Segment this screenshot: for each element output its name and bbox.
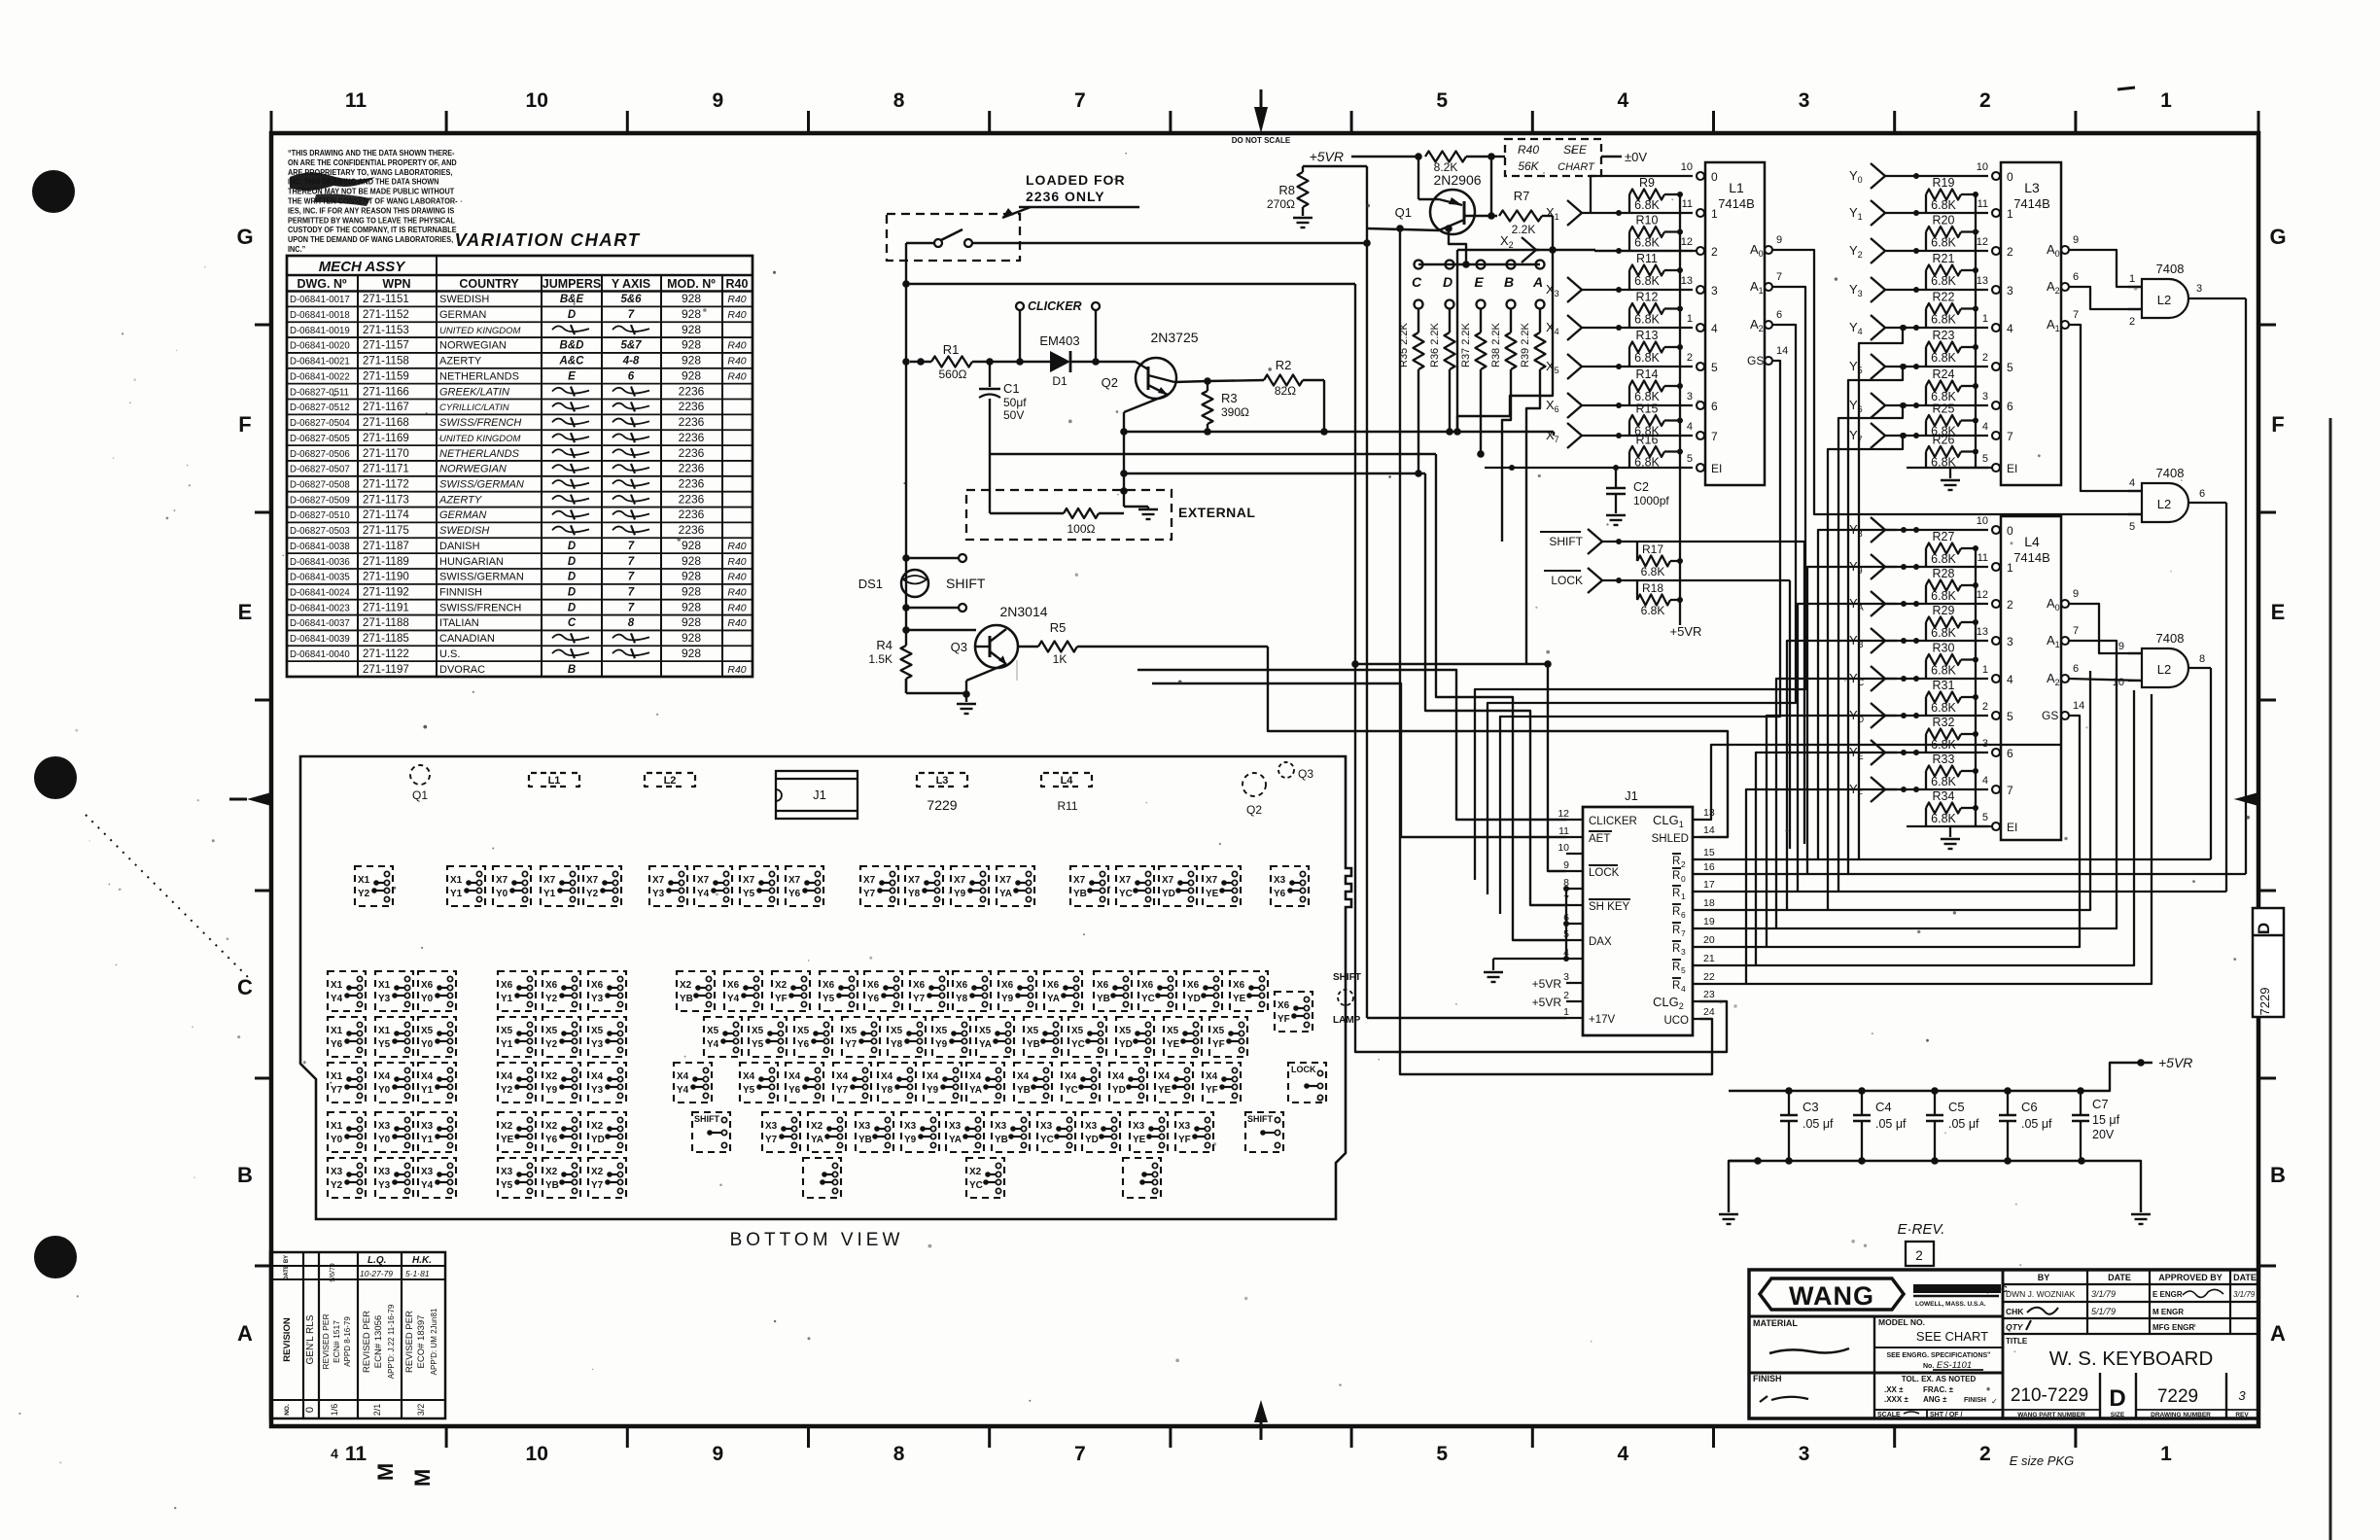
svg-text:14: 14 — [2073, 700, 2084, 712]
svg-text:X6: X6 — [913, 980, 925, 991]
svg-text:X3: X3 — [765, 1121, 777, 1132]
svg-text:1: 1 — [2129, 273, 2135, 285]
svg-text:0: 0 — [1681, 874, 1686, 884]
ground external — [1120, 487, 1158, 519]
svg-text:R3: R3 — [1221, 391, 1238, 405]
key switch X7/Y9 — [951, 866, 989, 906]
punch hole bottom-left — [34, 1236, 77, 1278]
key switch X6/YC — [1138, 971, 1176, 1011]
svg-text:10: 10 — [1977, 161, 1988, 173]
svg-text:271-1190: 271-1190 — [363, 572, 409, 583]
key switch X4/Y5 — [740, 1063, 778, 1102]
zone letters right edge — [2234, 225, 2287, 1346]
key switch spare b — [1123, 1158, 1161, 1198]
wire Q2 emitter to bus — [1120, 385, 1168, 477]
svg-text:X3: X3 — [421, 1167, 433, 1177]
pin 5 J1 — [1563, 928, 1583, 940]
key switch X4/Y0 — [375, 1063, 413, 1102]
svg-text:7: 7 — [628, 309, 635, 321]
wire gate1 output — [2245, 298, 2247, 874]
svg-text:D-06827-0511: D-06827-0511 — [290, 387, 349, 398]
pin 12 J1 — [1557, 808, 1583, 820]
svg-text:TITLE: TITLE — [2006, 1337, 2028, 1346]
svg-text:2N3725: 2N3725 — [1150, 330, 1198, 345]
pin 14 J1 — [1693, 824, 1715, 837]
svg-text:7: 7 — [2073, 625, 2079, 637]
svg-text:Y7: Y7 — [331, 1085, 342, 1096]
key switch X3/Y6 — [1271, 866, 1309, 906]
svg-text:2: 2 — [1563, 990, 1569, 1001]
svg-text:X2: X2 — [775, 980, 787, 991]
svg-text:H.K.: H.K. — [412, 1255, 432, 1266]
wire L1 A1 nested — [1475, 287, 1805, 880]
svg-text:D: D — [1443, 274, 1452, 290]
svg-text:D-06841-0018: D-06841-0018 — [290, 310, 350, 321]
svg-text:1: 1 — [1563, 1006, 1569, 1018]
svg-text:YD: YD — [1085, 1135, 1099, 1145]
svg-text:3/1/79: 3/1/79 — [2091, 1289, 2116, 1299]
svg-text:1000pf: 1000pf — [1633, 494, 1669, 507]
key switch X4/Y2 — [498, 1063, 536, 1102]
svg-text:UNITED KINGDOM: UNITED KINGDOM — [439, 326, 520, 336]
svg-text:X5: X5 — [845, 1026, 857, 1036]
svg-text:D: D — [2255, 923, 2273, 934]
svg-text:MATERIAL: MATERIAL — [1753, 1318, 1798, 1328]
wire X7 drive line — [1124, 428, 1554, 436]
svg-text:6: 6 — [628, 370, 635, 382]
svg-text:R10: R10 — [1636, 214, 1659, 227]
svg-text:928: 928 — [682, 585, 701, 599]
svg-text:X3: X3 — [1133, 1121, 1144, 1132]
svg-text:GERMAN: GERMAN — [439, 509, 486, 521]
svg-text:7: 7 — [1711, 430, 1718, 443]
svg-text:MODEL NO.: MODEL NO. — [1878, 1317, 1925, 1327]
svg-text:X5: X5 — [935, 1026, 947, 1036]
svg-text:Y0: Y0 — [378, 1085, 390, 1096]
svg-text:X7: X7 — [1119, 875, 1131, 886]
svg-text:YE: YE — [1133, 1135, 1145, 1145]
svg-text:6.8K: 6.8K — [1931, 552, 1956, 566]
PCB outline bottom view — [300, 756, 1351, 1219]
resistor R34 6.8K — [1926, 789, 1978, 826]
svg-text:3/2: 3/2 — [416, 1404, 426, 1417]
svg-text:2236: 2236 — [679, 507, 705, 521]
svg-text:Y7: Y7 — [591, 1180, 603, 1191]
svg-text:L2: L2 — [664, 775, 677, 787]
svg-text:INC.”: INC.” — [288, 245, 305, 255]
key switch X3/Y3 — [375, 1158, 413, 1198]
resistor R5 — [1017, 620, 1268, 666]
transistor Q1 PCB — [410, 765, 430, 802]
svg-text:3: 3 — [2007, 635, 2013, 648]
svg-text:X3: X3 — [904, 1121, 916, 1132]
svg-text:X5: X5 — [797, 1026, 809, 1036]
wire R36 tail — [1446, 369, 1453, 436]
svg-text:14: 14 — [1776, 345, 1788, 357]
svg-text:Y3: Y3 — [378, 994, 390, 1004]
svg-text:M ENGR: M ENGR — [2152, 1308, 2184, 1316]
svg-text:YC: YC — [1119, 889, 1133, 899]
svg-text:928: 928 — [682, 338, 701, 352]
key switch X2/Y7 — [588, 1158, 626, 1198]
svg-text:“THIS DRAWING AND THE DATA SHO: “THIS DRAWING AND THE DATA SHOWN THERE- — [288, 149, 455, 158]
IC footprint L4 PCB — [1041, 773, 1092, 787]
svg-text:4: 4 — [1982, 775, 1988, 787]
part number cell — [2003, 1373, 2258, 1418]
svg-text:7414B: 7414B — [2013, 550, 2050, 565]
svg-text:6.8K: 6.8K — [1931, 664, 1956, 678]
svg-text:W. S. KEYBOARD: W. S. KEYBOARD — [2049, 1347, 2214, 1370]
pin 13 J1 — [1693, 807, 1715, 820]
pin 16 J1 — [1693, 861, 1715, 874]
wire pin21 row — [1699, 690, 2134, 965]
svg-text:X6: X6 — [956, 980, 967, 991]
svg-text:X1: X1 — [331, 1121, 342, 1132]
svg-text:16: 16 — [1703, 861, 1715, 873]
wire L1 A0 to gate2 — [1772, 250, 2142, 514]
IC footprint L2 PCB — [645, 773, 695, 787]
svg-text:X3: X3 — [1040, 1121, 1052, 1132]
transistor Q2 PCB — [1242, 773, 1266, 817]
svg-text:9: 9 — [713, 1443, 724, 1465]
svg-text:.05 μf: .05 μf — [1948, 1117, 1979, 1131]
svg-text:5: 5 — [1687, 453, 1693, 465]
key switch X3/YA — [946, 1112, 984, 1152]
variation chart table — [287, 256, 752, 677]
svg-text:CLICKER: CLICKER — [1589, 816, 1637, 827]
svg-text:Y2: Y2 — [331, 1180, 342, 1191]
svg-text:X3: X3 — [1085, 1121, 1097, 1132]
svg-text:D-06841-0019: D-06841-0019 — [290, 326, 350, 336]
svg-text:2/1: 2/1 — [372, 1404, 382, 1417]
wire L3 A1 to gate2 — [2069, 325, 2142, 491]
input YA — [1849, 591, 1988, 616]
svg-text:100Ω: 100Ω — [1067, 522, 1096, 536]
svg-text:MOD. Nº: MOD. Nº — [667, 277, 716, 291]
pin 2 L1 — [1687, 352, 1718, 374]
resistor R19 6.8K — [1926, 176, 1978, 213]
key switch X6/Y3 — [588, 971, 626, 1011]
svg-text:D: D — [568, 602, 576, 613]
svg-text:R40: R40 — [1518, 143, 1539, 157]
svg-text:928: 928 — [682, 570, 701, 583]
key switch X6/Y4 — [724, 971, 762, 1011]
svg-text:X4: X4 — [591, 1071, 603, 1082]
svg-text:D-06841-0021: D-06841-0021 — [290, 356, 350, 367]
svg-text:D: D — [2109, 1385, 2125, 1412]
svg-text:LOCK: LOCK — [1291, 1065, 1316, 1074]
svg-text:11: 11 — [1977, 198, 1988, 210]
svg-text:M: M — [373, 1463, 398, 1481]
wire pin16 row — [1699, 873, 2246, 875]
svg-text:AZERTY: AZERTY — [439, 356, 482, 367]
svg-text:Y1: Y1 — [501, 994, 512, 1004]
svg-text:THE WRITTEN CONSENT OF WANG LA: THE WRITTEN CONSENT OF WANG LABORATOR- — [288, 196, 458, 206]
svg-text:3: 3 — [1711, 284, 1718, 297]
input Y6 — [1849, 393, 1988, 418]
svg-text:X2: X2 — [969, 1167, 981, 1177]
svg-text:Y0: Y0 — [421, 994, 433, 1004]
svg-text:ECN# 13056: ECN# 13056 — [373, 1315, 384, 1368]
svg-text:X3: X3 — [378, 1121, 390, 1132]
svg-text:DATE: DATE — [284, 1265, 290, 1280]
svg-text:R23: R23 — [1933, 329, 1955, 342]
svg-text:1: 1 — [1711, 207, 1718, 221]
svg-text:YC: YC — [1141, 994, 1155, 1004]
zone tick marks top — [271, 111, 2258, 133]
resistor R25 6.8K — [1926, 402, 1978, 438]
svg-text:50μf: 50μf — [1003, 396, 1027, 409]
key switch X4/Y8 — [878, 1063, 916, 1102]
svg-text:R40: R40 — [727, 294, 746, 305]
svg-text:271-1197: 271-1197 — [363, 664, 409, 676]
svg-text:X5: X5 — [1071, 1026, 1083, 1036]
wire left bus vertical — [902, 243, 934, 693]
svg-text:271-1175: 271-1175 — [363, 525, 409, 537]
svg-text:271-1171: 271-1171 — [363, 464, 409, 475]
svg-text:12: 12 — [1977, 589, 1988, 601]
svg-text:SIZE: SIZE — [2111, 1412, 2125, 1418]
svg-text:928: 928 — [682, 539, 701, 552]
svg-text:2: 2 — [2129, 316, 2135, 328]
svg-text:EXTERNAL: EXTERNAL — [1178, 505, 1255, 520]
key switch X4/Y1 — [418, 1063, 456, 1102]
svg-text:SHIFT: SHIFT — [1549, 535, 1583, 548]
svg-text:2236: 2236 — [679, 384, 705, 398]
resistor R10 6.8K — [1629, 214, 1683, 252]
svg-text:Y1: Y1 — [421, 1135, 433, 1145]
pin 2 L3 — [1982, 352, 2013, 374]
resistor R20 6.8K — [1926, 214, 1978, 252]
svg-text:4: 4 — [1687, 421, 1693, 433]
svg-text:D-06841-0039: D-06841-0039 — [290, 634, 350, 645]
wire pin17 row — [1699, 891, 2226, 892]
svg-text:Y0: Y0 — [331, 1135, 342, 1145]
resistor R33 6.8K — [1926, 752, 1978, 789]
svg-text:B: B — [1504, 274, 1514, 290]
key switch X2/Y6 — [542, 1112, 580, 1152]
svg-text:+5VR: +5VR — [2158, 1055, 2192, 1070]
svg-text:BY: BY — [2038, 1273, 2050, 1282]
svg-text:E: E — [1474, 274, 1484, 290]
svg-text:Y2: Y2 — [586, 889, 598, 899]
svg-text:M: M — [410, 1469, 435, 1487]
key switch X7/Y5 — [740, 866, 778, 906]
svg-text:6.8K: 6.8K — [1931, 198, 1956, 212]
wire pin15 row — [1699, 858, 2211, 860]
svg-text:YB: YB — [680, 994, 693, 1004]
svg-text:8: 8 — [893, 89, 905, 112]
finish cell — [1753, 1374, 1808, 1402]
svg-text:4: 4 — [2007, 673, 2013, 686]
resistor R40 dashed box SEE CHART — [1491, 139, 1647, 176]
svg-text:X2: X2 — [811, 1121, 822, 1132]
lamp contact upper — [906, 554, 966, 562]
key switch X3/YF — [1175, 1112, 1213, 1152]
enable input EI row — [1907, 825, 1988, 827]
svg-text:X7: X7 — [908, 875, 920, 886]
svg-text:X6: X6 — [1097, 980, 1108, 991]
key switch X6/Y9 — [998, 971, 1036, 1011]
svg-text:12: 12 — [1681, 236, 1693, 248]
svg-text:3: 3 — [2238, 1388, 2246, 1403]
pin 12 L1 — [1681, 236, 1718, 259]
svg-text:X3: X3 — [331, 1167, 342, 1177]
wire harness CLICKER chain — [1137, 670, 1566, 820]
svg-text:YE: YE — [1206, 889, 1218, 899]
pin 6 J1 — [1563, 912, 1583, 924]
wire CLG2 loop from bus — [906, 283, 1355, 285]
pin 20 J1 — [1693, 934, 1715, 947]
svg-text:X7: X7 — [743, 875, 754, 886]
svg-text:EI: EI — [2007, 821, 2017, 834]
pin 3 J1 — [1563, 971, 1583, 983]
svg-text:Y6: Y6 — [545, 1135, 557, 1145]
svg-text:R5: R5 — [1050, 620, 1067, 635]
svg-text:2: 2 — [2007, 598, 2013, 612]
key switch SHIFT left — [692, 1112, 730, 1152]
svg-text:Q3: Q3 — [951, 640, 967, 654]
svg-text:8: 8 — [893, 1443, 905, 1465]
key switch X2/YB — [542, 1158, 580, 1198]
svg-text:271-1167: 271-1167 — [363, 402, 409, 413]
svg-text:R12: R12 — [1636, 291, 1659, 304]
svg-text:X7: X7 — [543, 875, 555, 886]
svg-text:4: 4 — [1618, 89, 1629, 112]
key switch X5/Y5 — [749, 1017, 787, 1057]
svg-text:C5: C5 — [1948, 1100, 1965, 1114]
svg-text:YF: YF — [775, 994, 787, 1004]
svg-text:2: 2 — [1915, 1248, 1923, 1263]
svg-text:CHART: CHART — [1557, 161, 1595, 173]
svg-text:L3: L3 — [936, 775, 949, 787]
resistor R35 2.2K — [1398, 309, 1424, 370]
svg-text:MFG ENGR: MFG ENGR — [2152, 1323, 2194, 1332]
svg-text:3: 3 — [2196, 283, 2202, 295]
svg-text:D-06827-0507: D-06827-0507 — [290, 464, 350, 474]
svg-text:SWISS/FRENCH: SWISS/FRENCH — [439, 417, 521, 429]
svg-text:4: 4 — [2007, 322, 2013, 335]
label LOADED FOR 2236 ONLY — [1002, 172, 1139, 218]
svg-text:D-06841-0037: D-06841-0037 — [290, 618, 350, 629]
output A0 L1 — [1750, 234, 1782, 259]
key switch X3/YC — [1037, 1112, 1075, 1152]
key switch X2/YD — [588, 1112, 626, 1152]
svg-text:X2: X2 — [545, 1167, 557, 1177]
input Y4 — [1849, 315, 1988, 340]
svg-text:X6: X6 — [421, 980, 433, 991]
svg-text:UPON THE DEMAND OF WANG LABORA: UPON THE DEMAND OF WANG LABORATORIES, — [288, 235, 453, 245]
svg-text:7: 7 — [2007, 784, 2013, 797]
svg-text:REVISED PER: REVISED PER — [404, 1311, 415, 1373]
svg-text:D-06827-0510: D-06827-0510 — [290, 510, 350, 521]
external dashed box — [966, 490, 1255, 540]
svg-text:Y9: Y9 — [545, 1085, 557, 1096]
svg-text:B&D: B&D — [560, 340, 584, 352]
key switch X3/Y0 — [375, 1112, 413, 1152]
svg-text:X6: X6 — [867, 980, 879, 991]
svg-text:X6: X6 — [1277, 1000, 1289, 1011]
svg-text:271-1174: 271-1174 — [363, 509, 409, 521]
svg-text:6.8K: 6.8K — [1931, 589, 1956, 603]
key switch X6/Y1 — [498, 971, 536, 1011]
svg-text:Y6: Y6 — [788, 889, 800, 899]
svg-text:X2: X2 — [591, 1121, 603, 1132]
pin 3 L3 — [1982, 391, 2013, 413]
connector J1 — [1583, 788, 1693, 1035]
svg-text:R8: R8 — [1278, 183, 1295, 197]
svg-text:X4: X4 — [788, 1071, 800, 1082]
svg-text:D-06841-0017: D-06841-0017 — [290, 295, 350, 305]
svg-text:DANISH: DANISH — [439, 541, 480, 552]
svg-text:X6: X6 — [1001, 980, 1013, 991]
key switch X1/Y4 — [328, 971, 366, 1011]
svg-text:A: A — [237, 1321, 253, 1346]
svg-text:Y4: Y4 — [707, 1039, 718, 1050]
AND gate L2 a 7408 — [2128, 262, 2246, 328]
svg-text:3: 3 — [1681, 947, 1686, 957]
output GS L1 — [1747, 345, 1788, 367]
svg-text:COUNTRY: COUNTRY — [459, 277, 519, 291]
svg-text:10: 10 — [1681, 161, 1693, 173]
svg-text:13: 13 — [1977, 626, 1988, 638]
key switch X4/Y4 — [674, 1063, 712, 1102]
svg-text:X6: X6 — [822, 980, 834, 991]
border frame — [271, 133, 2258, 1426]
svg-text:X4: X4 — [421, 1071, 433, 1082]
wire pin19 row — [1699, 641, 2117, 928]
pullup rail +5VR — [1679, 194, 1681, 625]
svg-text:0: 0 — [1711, 170, 1718, 184]
wire switch to jumper bus — [972, 239, 1371, 247]
svg-text:BY: BY — [284, 1255, 290, 1263]
svg-text:3: 3 — [1982, 391, 1988, 402]
svg-text:928: 928 — [682, 368, 701, 382]
svg-text:NETHERLANDS: NETHERLANDS — [439, 370, 519, 382]
svg-text:6: 6 — [1776, 309, 1782, 321]
wire R5 to SHLED — [1268, 647, 1728, 837]
svg-text:1: 1 — [2007, 207, 2013, 221]
svg-text:10-27-79: 10-27-79 — [360, 1269, 393, 1278]
svg-text:Y5: Y5 — [378, 1039, 390, 1050]
svg-text:SWISS/GERMAN: SWISS/GERMAN — [439, 478, 524, 490]
svg-text:50V: 50V — [1003, 408, 1024, 422]
svg-text:2236: 2236 — [679, 400, 705, 413]
pin 5 EI L3 — [1982, 453, 2017, 475]
svg-text:.XX ±: .XX ± — [1884, 1385, 1904, 1394]
capacitor C3 — [1780, 1087, 1834, 1165]
svg-text:D-06827-0506: D-06827-0506 — [290, 448, 350, 459]
svg-text:R33: R33 — [1933, 752, 1955, 766]
key switch X5/YD — [1116, 1017, 1154, 1057]
svg-text:Y9: Y9 — [935, 1039, 947, 1050]
resistor R21 6.8K — [1926, 252, 1978, 290]
input YC — [1849, 666, 1988, 691]
pin 24 J1 — [1693, 1006, 1715, 1019]
power label +5VR top — [1310, 149, 1422, 164]
svg-text:2.2K: 2.2K — [1512, 223, 1536, 236]
svg-text:Y0: Y0 — [378, 1135, 390, 1145]
svg-text:YD: YD — [1187, 994, 1201, 1004]
transistor Q2 2N3725 — [1102, 330, 1199, 399]
svg-text:D-06827-0504: D-06827-0504 — [290, 418, 350, 429]
wire harness switch to pin1 — [1367, 243, 1566, 1018]
pin 5 EI L1 — [1687, 453, 1722, 475]
svg-text:Y4: Y4 — [677, 1085, 688, 1096]
svg-text:X5: X5 — [421, 1026, 433, 1036]
svg-text:R40: R40 — [727, 541, 746, 552]
svg-text:L1: L1 — [1729, 180, 1744, 195]
